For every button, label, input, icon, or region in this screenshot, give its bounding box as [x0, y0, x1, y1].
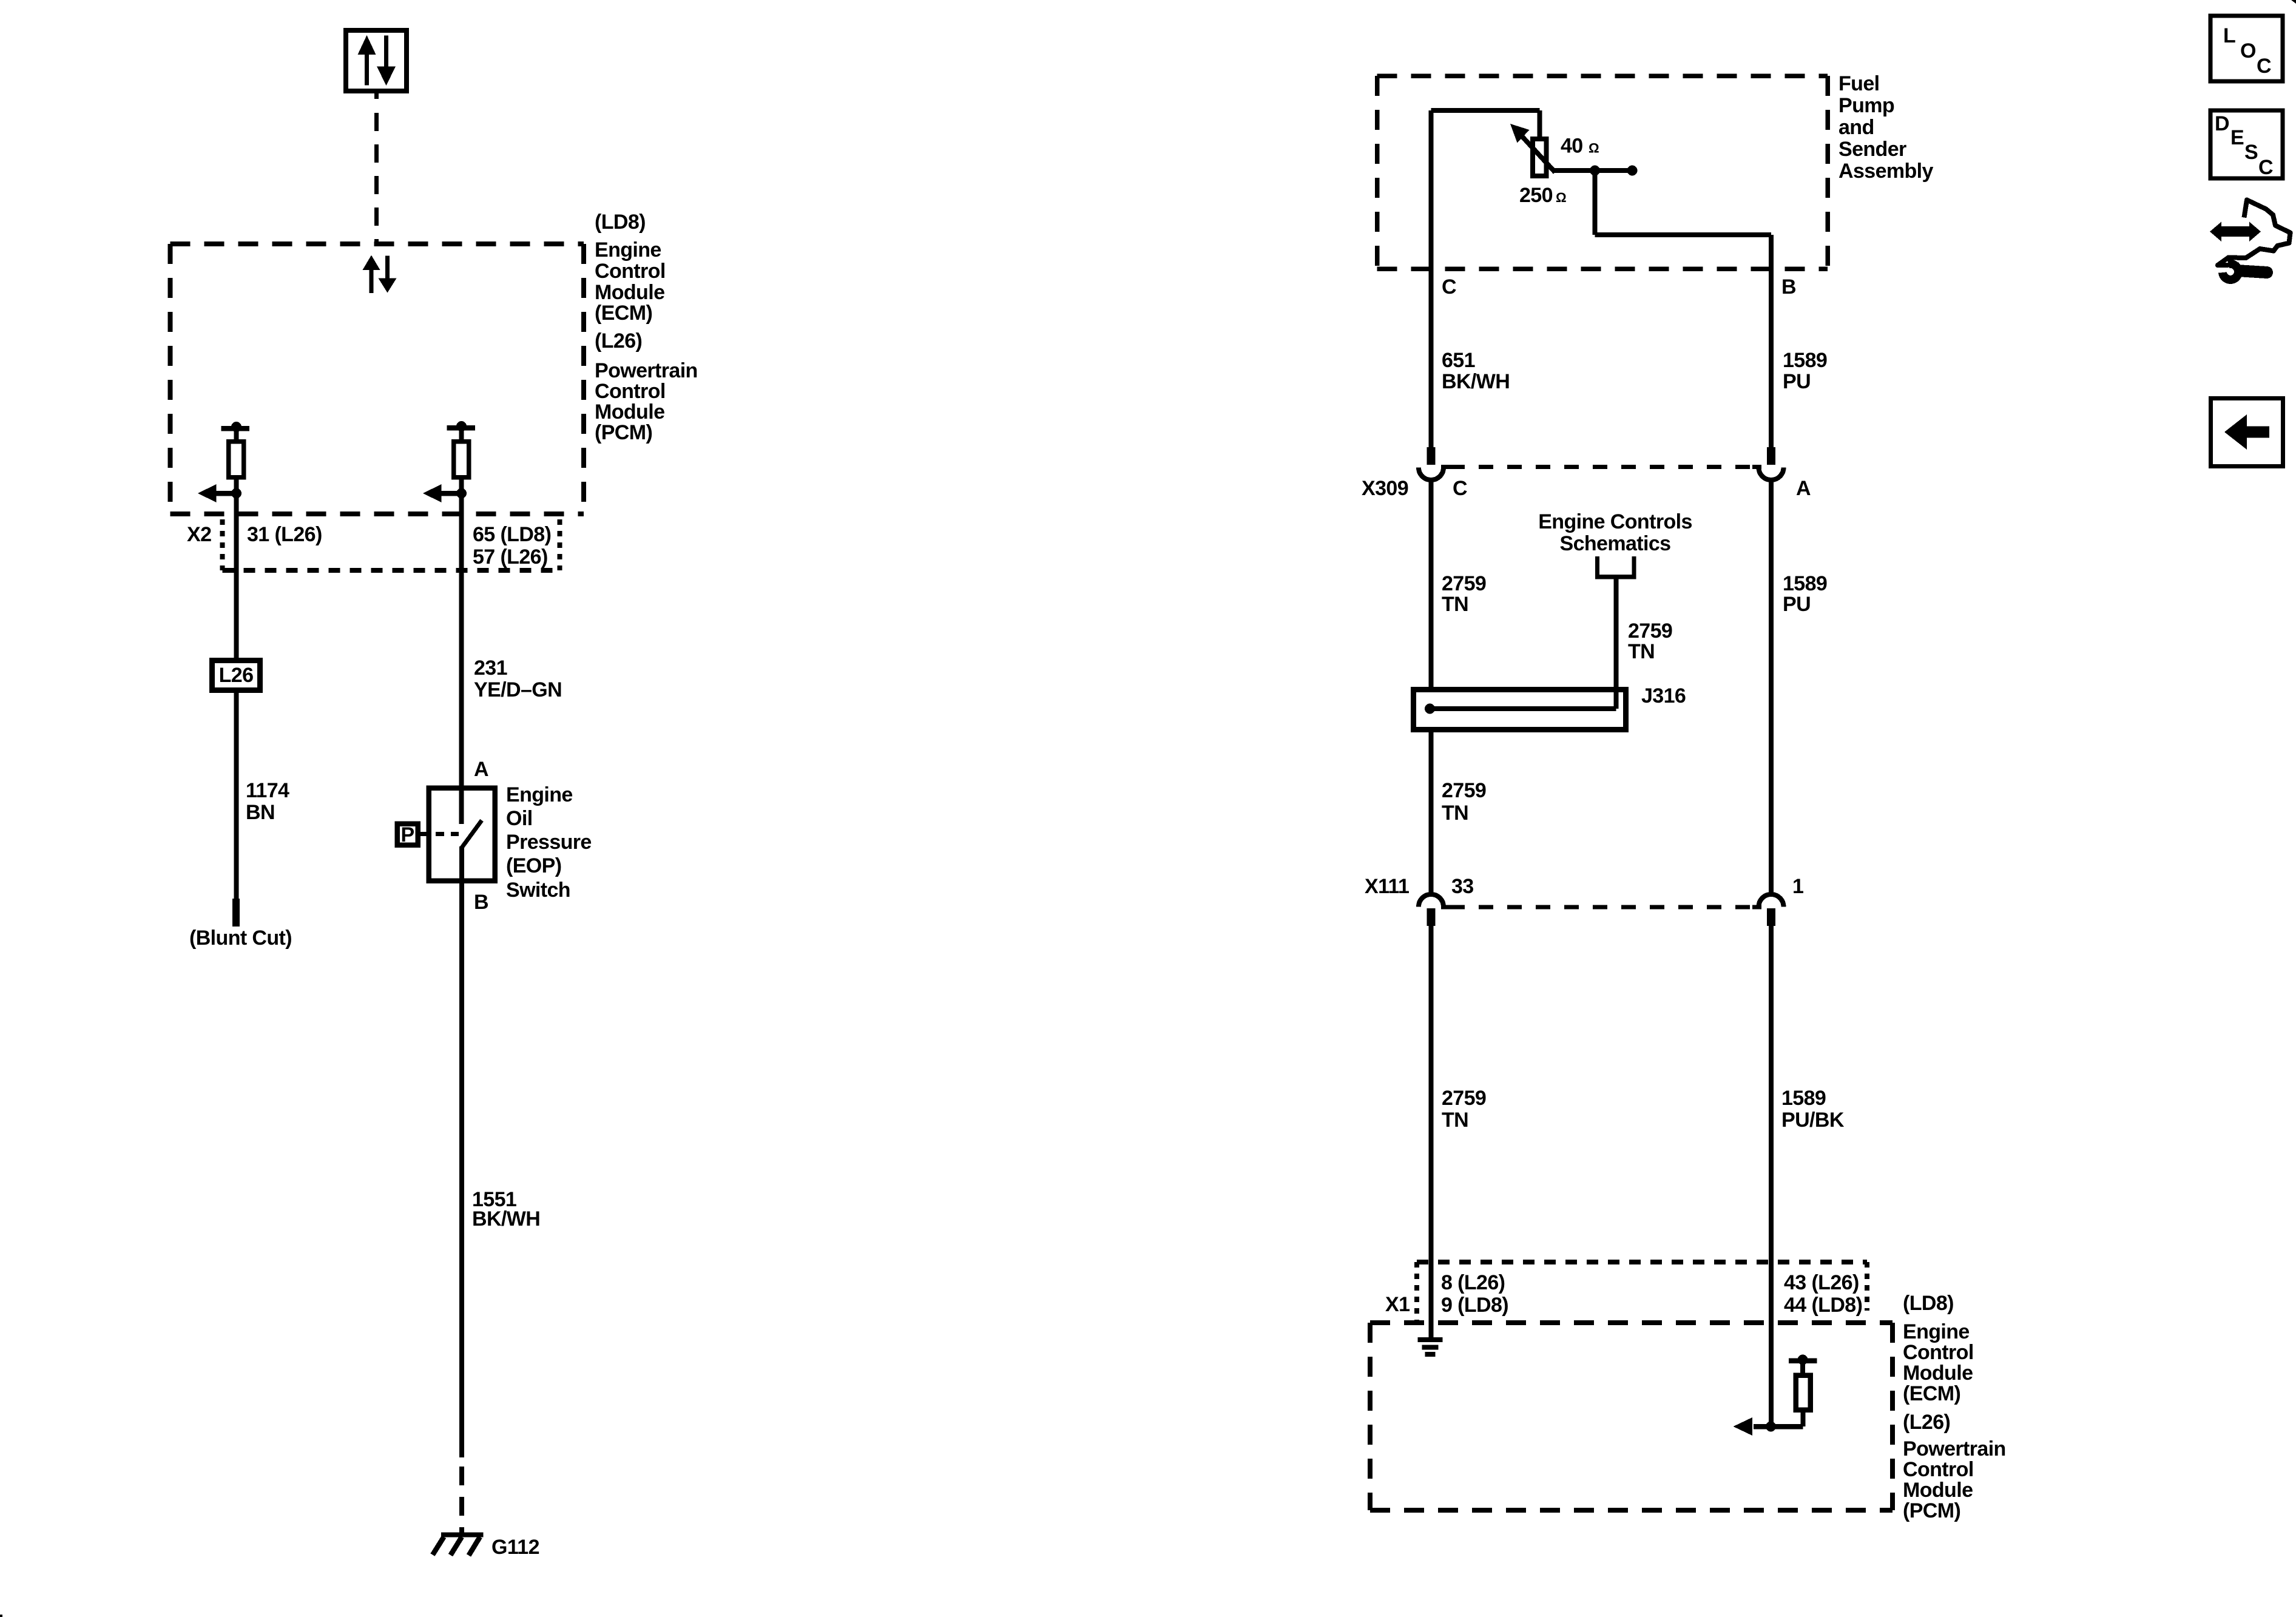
ECM PCM module dashed box right edge — [581, 244, 586, 514]
ECM PCM bottom dashed box bottom edge — [1370, 1508, 1893, 1513]
connector X111 pin 33 stub — [1427, 908, 1436, 926]
svg-text:TN: TN — [1442, 593, 1468, 616]
connector X2 dotted box bottom edge — [223, 568, 560, 573]
connector X2 dotted box left edge — [220, 519, 225, 570]
svg-text:and: and — [1838, 116, 1874, 139]
svg-text:31 (L26): 31 (L26) — [247, 523, 322, 546]
svg-text:(Blunt Cut): (Blunt Cut) — [189, 927, 292, 950]
junction dot PCM — [1766, 1422, 1776, 1432]
svg-text:65 (LD8): 65 (LD8) — [473, 523, 551, 546]
wire resistor R-right to junction — [459, 477, 464, 493]
svg-text:Pump: Pump — [1838, 94, 1894, 117]
ECM PCM bottom dashed box right edge — [1890, 1323, 1895, 1510]
dashed connector line X309 — [1450, 465, 1752, 469]
svg-text:Control: Control — [1903, 1458, 1974, 1481]
svg-text:PU: PU — [1783, 593, 1811, 616]
resistor R-right top bar — [447, 425, 476, 431]
dashed connector line X111 — [1450, 905, 1752, 910]
svg-text:(PCM): (PCM) — [595, 421, 652, 444]
splice J316 dot — [1425, 704, 1435, 714]
arrow left PCM — [1734, 1417, 1753, 1436]
ECM PCM module dashed box left edge — [168, 244, 173, 514]
svg-text:Sender: Sender — [1838, 138, 1906, 161]
svg-text:9 (LD8): 9 (LD8) — [1441, 1294, 1508, 1317]
off-page reference bracket — [1595, 556, 1599, 577]
svg-text:Engine: Engine — [1903, 1320, 1970, 1343]
resistor in PCM stub — [1800, 1360, 1805, 1375]
connector X111 pin 1 stub — [1767, 908, 1775, 926]
resistor R-right body — [454, 442, 469, 478]
EOP switch box — [429, 788, 495, 881]
junction dot right — [456, 488, 467, 499]
svg-text:X1: X1 — [1385, 1293, 1410, 1316]
connector X309 pin A arc — [1759, 468, 1784, 481]
svg-text:231: 231 — [474, 657, 507, 680]
wire 1174 BN upper — [234, 493, 239, 660]
svg-text:43 (L26): 43 (L26) — [1784, 1271, 1859, 1294]
ECM PCM module dashed box top edge — [171, 241, 584, 246]
svg-text:Pressure: Pressure — [506, 831, 592, 854]
fuel pump sender assembly dashed box left edge — [1375, 76, 1380, 269]
sender wiper diagonal arrow — [1520, 134, 1555, 172]
resistor in PCM body — [1796, 1376, 1811, 1410]
resistor R-left top dot — [231, 422, 241, 432]
svg-text:Oil: Oil — [506, 807, 533, 830]
svg-text:C: C — [2258, 156, 2273, 179]
svg-text:C: C — [2257, 55, 2271, 78]
connector X1 dotted box right edge — [1865, 1262, 1869, 1311]
svg-text:A: A — [474, 758, 488, 781]
svg-text:8 (L26): 8 (L26) — [1441, 1271, 1505, 1294]
fuel pump sender assembly dashed box top edge — [1377, 73, 1828, 78]
svg-text:Powertrain: Powertrain — [595, 359, 698, 382]
wire bracket stem 2759 TN — [1614, 577, 1619, 709]
svg-text:PU: PU — [1783, 370, 1811, 393]
svg-text:1: 1 — [1792, 875, 1803, 898]
wire 651 BK/WH — [1429, 110, 1434, 447]
svg-text:L26: L26 — [219, 664, 254, 687]
ground G112 symbol — [441, 1533, 484, 1538]
svg-text:Assembly: Assembly — [1838, 160, 1934, 183]
resistor R-left top bar — [221, 426, 250, 431]
wire 1589 PU lower segment — [1769, 480, 1774, 894]
arrow left at junction — [215, 491, 237, 496]
wire into sender body — [1538, 110, 1542, 141]
DESC icon box — [2210, 110, 2283, 178]
svg-text:Schematics: Schematics — [1560, 532, 1671, 555]
svg-text:PU/BK: PU/BK — [1781, 1109, 1845, 1132]
dashed link P to blade — [420, 832, 459, 836]
svg-text:B: B — [1781, 275, 1796, 299]
svg-text:33: 33 — [1451, 875, 1474, 898]
svg-text:2759: 2759 — [1628, 619, 1672, 643]
down arrow in DLC box — [384, 36, 388, 67]
svg-text:G112: G112 — [491, 1536, 539, 1559]
svg-text:S: S — [2244, 141, 2258, 164]
wire sender top horizontal — [1431, 108, 1540, 113]
ECM PCM bottom dashed box top edge — [1370, 1320, 1893, 1325]
EOP switch blade — [462, 820, 482, 848]
wire 1174 BN lower — [234, 690, 239, 900]
svg-text:(LD8): (LD8) — [595, 211, 646, 234]
stub below DLC box — [374, 91, 379, 99]
fuel pump sender assembly dashed box right edge — [1825, 76, 1830, 269]
svg-text:Control: Control — [595, 260, 666, 283]
EOP switch lower stub — [459, 846, 464, 883]
svg-text:Module: Module — [595, 281, 664, 304]
back arrow icon box — [2211, 399, 2283, 467]
svg-text:Module: Module — [1903, 1479, 1973, 1502]
wire resistor PCM horizontal — [1754, 1424, 1803, 1430]
connector X309 pin A stub — [1767, 447, 1775, 465]
resistor R-right top dot — [456, 421, 467, 431]
hotlink double arrow — [2220, 226, 2250, 237]
svg-text:2759: 2759 — [1442, 572, 1486, 595]
svg-text:X111: X111 — [1365, 875, 1409, 898]
svg-text:Fuel: Fuel — [1838, 72, 1880, 95]
wire 1589 PU upper — [1769, 235, 1774, 447]
P box — [397, 824, 418, 845]
resistor R-left top stub — [234, 428, 239, 441]
svg-text:(PCM): (PCM) — [1903, 1499, 1960, 1522]
variable resistor sender body — [1533, 139, 1547, 176]
svg-text:BK/WH: BK/WH — [1442, 370, 1510, 393]
up arrow in DLC box — [365, 54, 369, 86]
wire 2759 TN upper — [1429, 480, 1434, 692]
wire 2759 TN mid — [1429, 729, 1434, 894]
wiper end dot — [1627, 166, 1638, 176]
svg-text:57 (L26): 57 (L26) — [473, 545, 548, 569]
svg-text:1589: 1589 — [1783, 572, 1827, 595]
svg-text:BN: BN — [246, 801, 275, 824]
ECM PCM bottom dashed box left edge — [1368, 1323, 1373, 1510]
svg-text:Module: Module — [595, 400, 664, 424]
svg-text:TN: TN — [1628, 640, 1655, 663]
svg-text:TN: TN — [1442, 802, 1468, 825]
back arrow — [2224, 414, 2247, 450]
connector X309 pin C stub — [1427, 447, 1436, 465]
page corner mark bottom left — [0, 1615, 2, 1617]
resistor R-right top stub — [459, 428, 464, 441]
svg-text:(ECM): (ECM) — [1903, 1382, 1960, 1405]
svg-text:Control: Control — [1903, 1341, 1974, 1364]
svg-text:1589: 1589 — [1781, 1087, 1826, 1110]
svg-text:Switch: Switch — [506, 879, 570, 902]
svg-text:1589: 1589 — [1783, 349, 1827, 372]
svg-text:YE/D–GN: YE/D–GN — [474, 678, 562, 701]
splice J316 inner line — [1430, 706, 1616, 711]
svg-text:250: 250 — [1519, 184, 1553, 207]
data link connector box — [346, 30, 407, 91]
svg-text:E: E — [2230, 126, 2244, 149]
dashed wire DLC to ECM — [374, 113, 379, 241]
svg-text:L: L — [2223, 24, 2235, 47]
wire 231 YE/D-GN — [459, 493, 464, 824]
svg-text:C: C — [1453, 477, 1467, 500]
wire 2759 TN long — [1429, 926, 1434, 1337]
svg-text:44 (LD8): 44 (LD8) — [1784, 1294, 1862, 1317]
ground symbol in ECM — [1418, 1337, 1443, 1342]
hotlink outline shape — [2218, 200, 2291, 266]
wire 1589 PU/BK — [1769, 926, 1774, 1426]
svg-text:X2: X2 — [187, 523, 211, 546]
connector X2 dotted box right edge — [558, 519, 562, 570]
resistor in PCM top bar — [1789, 1358, 1817, 1363]
connector X111 pin 33 arc — [1419, 894, 1443, 907]
svg-text:(L26): (L26) — [595, 329, 642, 353]
sender wiper horizontal — [1552, 168, 1632, 173]
svg-text:2759: 2759 — [1442, 779, 1486, 802]
svg-text:(L26): (L26) — [1903, 1411, 1950, 1434]
connector X1 dotted box top edge — [1417, 1260, 1867, 1264]
svg-text:Engine: Engine — [595, 238, 661, 262]
LOC icon box — [2210, 16, 2283, 81]
svg-text:2759: 2759 — [1442, 1087, 1486, 1110]
fuel pump sender assembly dashed box bottom edge — [1377, 266, 1828, 271]
svg-text:651: 651 — [1442, 349, 1475, 372]
connector X309 pin C arc — [1419, 468, 1443, 481]
up arrow inside ECM box — [370, 269, 374, 293]
resistor R-left body — [229, 442, 244, 478]
svg-text:Powertrain: Powertrain — [1903, 1437, 2006, 1460]
svg-text:O: O — [2240, 39, 2256, 62]
wiper junction dot — [1590, 166, 1600, 176]
svg-text:(ECM): (ECM) — [595, 302, 652, 325]
svg-text:40: 40 — [1561, 135, 1583, 158]
svg-text:1174: 1174 — [246, 779, 289, 802]
svg-text:TN: TN — [1442, 1109, 1468, 1132]
svg-text:Engine Controls: Engine Controls — [1538, 510, 1692, 533]
wrench icon — [2223, 264, 2238, 280]
wire wiper down — [1593, 170, 1598, 235]
down arrow inside ECM box — [385, 256, 390, 279]
svg-text:B: B — [474, 891, 488, 914]
wire wiper to B horizontal — [1595, 232, 1772, 237]
wire 1551 BK/WH — [459, 880, 464, 1457]
svg-text:(LD8): (LD8) — [1903, 1292, 1954, 1315]
svg-text:(EOP): (EOP) — [506, 854, 561, 877]
dashed wire to G112 — [459, 1467, 464, 1537]
ECM PCM module dashed box bottom edge — [171, 511, 584, 516]
svg-text:C: C — [1442, 275, 1456, 299]
wire resistor PCM down — [1801, 1409, 1806, 1426]
svg-text:X309: X309 — [1362, 477, 1408, 500]
svg-text:Engine: Engine — [506, 783, 573, 806]
svg-text:BK/WH: BK/WH — [472, 1207, 540, 1230]
svg-text:Ω: Ω — [1556, 190, 1566, 205]
svg-text:Ω: Ω — [1589, 141, 1599, 156]
svg-text:Module: Module — [1903, 1362, 1973, 1385]
connector X111 pin 1 arc — [1759, 894, 1784, 907]
page corner mark top right — [2291, 0, 2296, 4]
connector X1 dotted box left edge — [1414, 1262, 1419, 1320]
svg-text:J316: J316 — [1641, 684, 1686, 707]
svg-text:A: A — [1796, 477, 1811, 500]
svg-text:P: P — [400, 823, 414, 846]
splice L26 box — [212, 661, 260, 690]
splice pack J316 box — [1414, 690, 1626, 730]
svg-text:D: D — [2215, 112, 2229, 135]
resistor in PCM top dot — [1798, 1355, 1808, 1365]
svg-text:Control: Control — [595, 380, 666, 403]
wire resistor R-left to junction — [234, 477, 239, 493]
arrow left at right junction — [441, 491, 462, 496]
blunt cut bar — [232, 899, 240, 927]
junction dot left — [231, 488, 241, 499]
